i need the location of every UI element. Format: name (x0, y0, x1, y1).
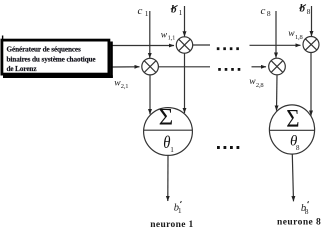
svg-text:b: b (300, 3, 306, 15)
svg-text:c: c (261, 5, 266, 17)
svg-text:Σ: Σ (286, 105, 299, 132)
svg-text:1,8: 1,8 (295, 34, 303, 41)
svg-text:8: 8 (267, 9, 271, 18)
svg-text:2,8: 2,8 (256, 82, 264, 89)
svg-text:1: 1 (178, 206, 182, 215)
svg-text:Σ: Σ (159, 104, 174, 129)
svg-text:b: b (171, 3, 177, 15)
svg-text:neurone 8: neurone 8 (277, 218, 321, 228)
svg-text:c: c (138, 5, 143, 17)
svg-text:2,1: 2,1 (121, 83, 129, 90)
svg-text:8: 8 (296, 144, 300, 152)
svg-text:de Lorenz: de Lorenz (7, 65, 38, 73)
svg-text:1,1: 1,1 (168, 35, 176, 42)
svg-text:1: 1 (145, 9, 149, 18)
svg-text:Générateur de séquences: Générateur de séquences (7, 45, 82, 53)
svg-text:binaires du système chaotique: binaires du système chaotique (7, 56, 96, 64)
svg-text:neurone 1: neurone 1 (150, 220, 193, 228)
svg-text:1: 1 (170, 146, 174, 154)
svg-text:8: 8 (305, 207, 309, 216)
svg-text:8: 8 (307, 7, 311, 16)
svg-text:1: 1 (179, 8, 183, 17)
